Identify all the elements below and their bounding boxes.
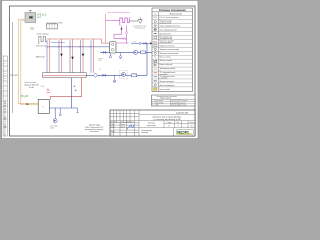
svg-text:Лист: Лист [177, 122, 180, 124]
svg-text:Изм: Изм [110, 121, 113, 123]
svg-text:полотенцесушит.: полотенцесушит. [160, 42, 173, 44]
valve DHW [103, 51, 106, 53]
svg-text:Иванов: Иванов [120, 124, 125, 126]
gas boiler AOGV [25, 10, 36, 22]
svg-text:узел полотенцесушителя: узел полотенцесушителя [108, 12, 130, 14]
svg-text:Ст1,Ст2 стояки отопления: Ст1,Ст2 стояки отопления [160, 17, 179, 19]
svg-text:д: д [5, 103, 7, 104]
cold water tie wire [131, 42, 152, 44]
cold water riser wire [146, 43, 148, 75]
svg-text:Условные обозначения: Условные обозначения [159, 9, 186, 12]
svg-text:25-60: 25-60 [50, 128, 54, 130]
diamond fitting [94, 73, 98, 77]
svg-text:отопления: отопления [90, 131, 99, 133]
flue tan pipes [18, 19, 38, 105]
towel valve dot [121, 28, 123, 30]
svg-text:снабжения: снабжения [160, 78, 168, 80]
open tank symbol [129, 17, 142, 23]
towel bowtie [123, 38, 126, 40]
drain stub wire [77, 108, 79, 112]
label boiler green [21, 13, 47, 98]
pump bottom [53, 119, 57, 123]
title block [110, 110, 195, 136]
svg-text:Разраб: Разраб [110, 124, 115, 126]
signature [127, 125, 134, 130]
svg-text:Ст.1: Ст.1 [45, 47, 48, 49]
logo [177, 130, 194, 135]
gauges near riser [73, 85, 76, 91]
legend symbols [153, 17, 157, 90]
legend rows [152, 16, 193, 87]
svg-text:Стадия: Стадия [167, 122, 172, 124]
branch pump wire [54, 108, 56, 119]
pump DHW [134, 50, 138, 54]
svg-text:Радиатор отопления: Радиатор отопления [160, 45, 175, 47]
svg-text:Петров: Петров [120, 126, 125, 128]
svg-text:Ст.2: Ст.2 [57, 47, 60, 49]
svg-text:АГВ 11,6: АГВ 11,6 [37, 13, 47, 16]
svg-text:насос: насос [99, 58, 103, 60]
svg-text:Qгвс=4,10 кВт 3,5 ккал/ч: Qгвс=4,10 кВт 3,5 ккал/ч [171, 105, 186, 107]
svg-text:30 кВт: 30 кВт [29, 87, 34, 89]
pump line lower wire [98, 74, 148, 76]
filter lower [132, 74, 137, 77]
paper sheet [2, 0, 198, 138]
filter DHW [141, 51, 146, 54]
riser valves [60, 54, 84, 60]
left margin stamp cells [3, 56, 7, 136]
drain bottom [59, 114, 61, 116]
svg-text:Кран Маевского: Кран Маевского [160, 33, 172, 35]
supply header T1 wire [47, 39, 110, 43]
svg-text:Ст.5: Ст.5 [89, 47, 92, 49]
bowtie on tie [144, 42, 147, 44]
secondary header wire [51, 42, 65, 44]
svg-text:ГВС: ГВС [30, 29, 35, 31]
loads table [152, 95, 196, 107]
svg-text:Qот=22,10 кВт 19,0 ккал/ч: Qот=22,10 кВт 19,0 ккал/ч [171, 100, 187, 102]
towel coil left [36, 34, 50, 59]
svg-text:а: а [5, 73, 7, 74]
pump lower [119, 70, 127, 78]
svg-text:Н.контр: Н.контр [110, 131, 115, 133]
valve lower [103, 74, 106, 76]
svg-text:насос цирк.: насос цирк. [50, 126, 59, 128]
svg-text:1: 1 [178, 126, 179, 128]
arrow on pipe [27, 103, 29, 105]
pipe in channel [43, 74, 86, 76]
svg-text:Дата: Дата [130, 121, 133, 123]
svg-text:Воздухоотводчик: Воздухоотводчик [160, 21, 173, 23]
svg-text:Согласовано: Согласовано [5, 100, 7, 110]
svg-text:Qв=0,00 кВт 0,0 ккал/ч: Qв=0,00 кВт 0,0 ккал/ч [171, 102, 185, 104]
svg-text:жилого дома: жилого дома [147, 125, 156, 127]
DHW line wire [100, 51, 158, 53]
towel unit supply wire [105, 14, 107, 43]
floor loop fittings [47, 89, 51, 93]
svg-text:Ст.3: Ст.3 [68, 47, 71, 49]
svg-text:Вентиляция: Вентиляция [156, 102, 164, 104]
branch drain wire [59, 108, 61, 114]
bottom boiler [38, 99, 49, 113]
towel coil magenta [120, 17, 129, 25]
riser labels [45, 47, 92, 49]
svg-text:п: п [5, 98, 7, 99]
arrow on tie [150, 42, 152, 44]
arrow end DHW [158, 51, 160, 53]
svg-text:Котельная: Котельная [148, 123, 155, 125]
svg-text:Ст.4: Ст.4 [78, 47, 81, 49]
svg-text:Запорная арматура: Запорная арматура [160, 81, 174, 83]
towel legs wire [114, 26, 129, 44]
floor loop red wire [50, 78, 81, 100]
svg-text:14-07/22-ОВ: 14-07/22-ОВ [176, 113, 189, 115]
svg-text:ВЗ д25: ВЗ д25 [21, 96, 29, 98]
svg-text:Кран со сгоном: Кран со сгоном [160, 56, 171, 58]
return bottom wire [49, 107, 77, 109]
expansion tank [47, 22, 63, 29]
drawing frame [10, 6, 196, 136]
drain DHW [109, 52, 121, 58]
svg-text:5: 5 [99, 69, 100, 71]
svg-text:Наименование: Наименование [169, 14, 181, 16]
svg-text:Кол.уч: Кол.уч [114, 121, 118, 123]
svg-text:м: м [5, 78, 7, 79]
svg-text:полотенцесуш.: полотенцесуш. [37, 34, 50, 36]
svg-text:Отопление: Отопление [156, 100, 163, 102]
return riser blue wire [71, 78, 73, 108]
drain lower [113, 75, 115, 82]
towel vent circle [126, 31, 128, 33]
risers [47, 39, 94, 73]
svg-text:Таблица расчетных тепловых: Таблица расчетных тепловых [156, 96, 177, 98]
legend table [152, 8, 193, 92]
svg-text:Т1,Т2: Т1,Т2 [153, 17, 157, 19]
svg-text:ТМС 38/5: ТМС 38/5 [10, 75, 17, 77]
svg-text:ГВС: ГВС [156, 105, 159, 107]
svg-text:МВК 40/20: МВК 40/20 [36, 57, 45, 59]
HE unit [110, 42, 117, 54]
svg-text:Датчик температуры: Датчик температуры [160, 85, 175, 87]
note text [85, 125, 105, 134]
svg-text:Ст.6: Ст.6 [41, 86, 44, 88]
manifold channel [43, 73, 87, 78]
circle on tie [139, 42, 141, 44]
svg-text:Провер: Провер [110, 126, 115, 128]
svg-text:Листов: Листов [189, 122, 194, 124]
return header T2 wire [48, 46, 110, 48]
legend texts [160, 17, 180, 91]
svg-text:снабжения: снабжения [160, 74, 168, 76]
svg-text:о: о [5, 93, 7, 94]
towel branch wire [106, 20, 120, 22]
chimney shaft wall [11, 22, 13, 113]
svg-text:24: 24 [191, 126, 193, 128]
wire to diamond [86, 74, 93, 76]
